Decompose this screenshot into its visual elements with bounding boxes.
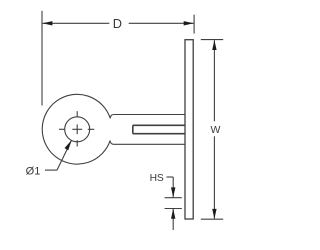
svg-text:W: W [211,124,221,136]
svg-text:HS: HS [150,173,164,184]
svg-text:D: D [113,16,122,31]
svg-text:Ø1: Ø1 [26,166,41,178]
